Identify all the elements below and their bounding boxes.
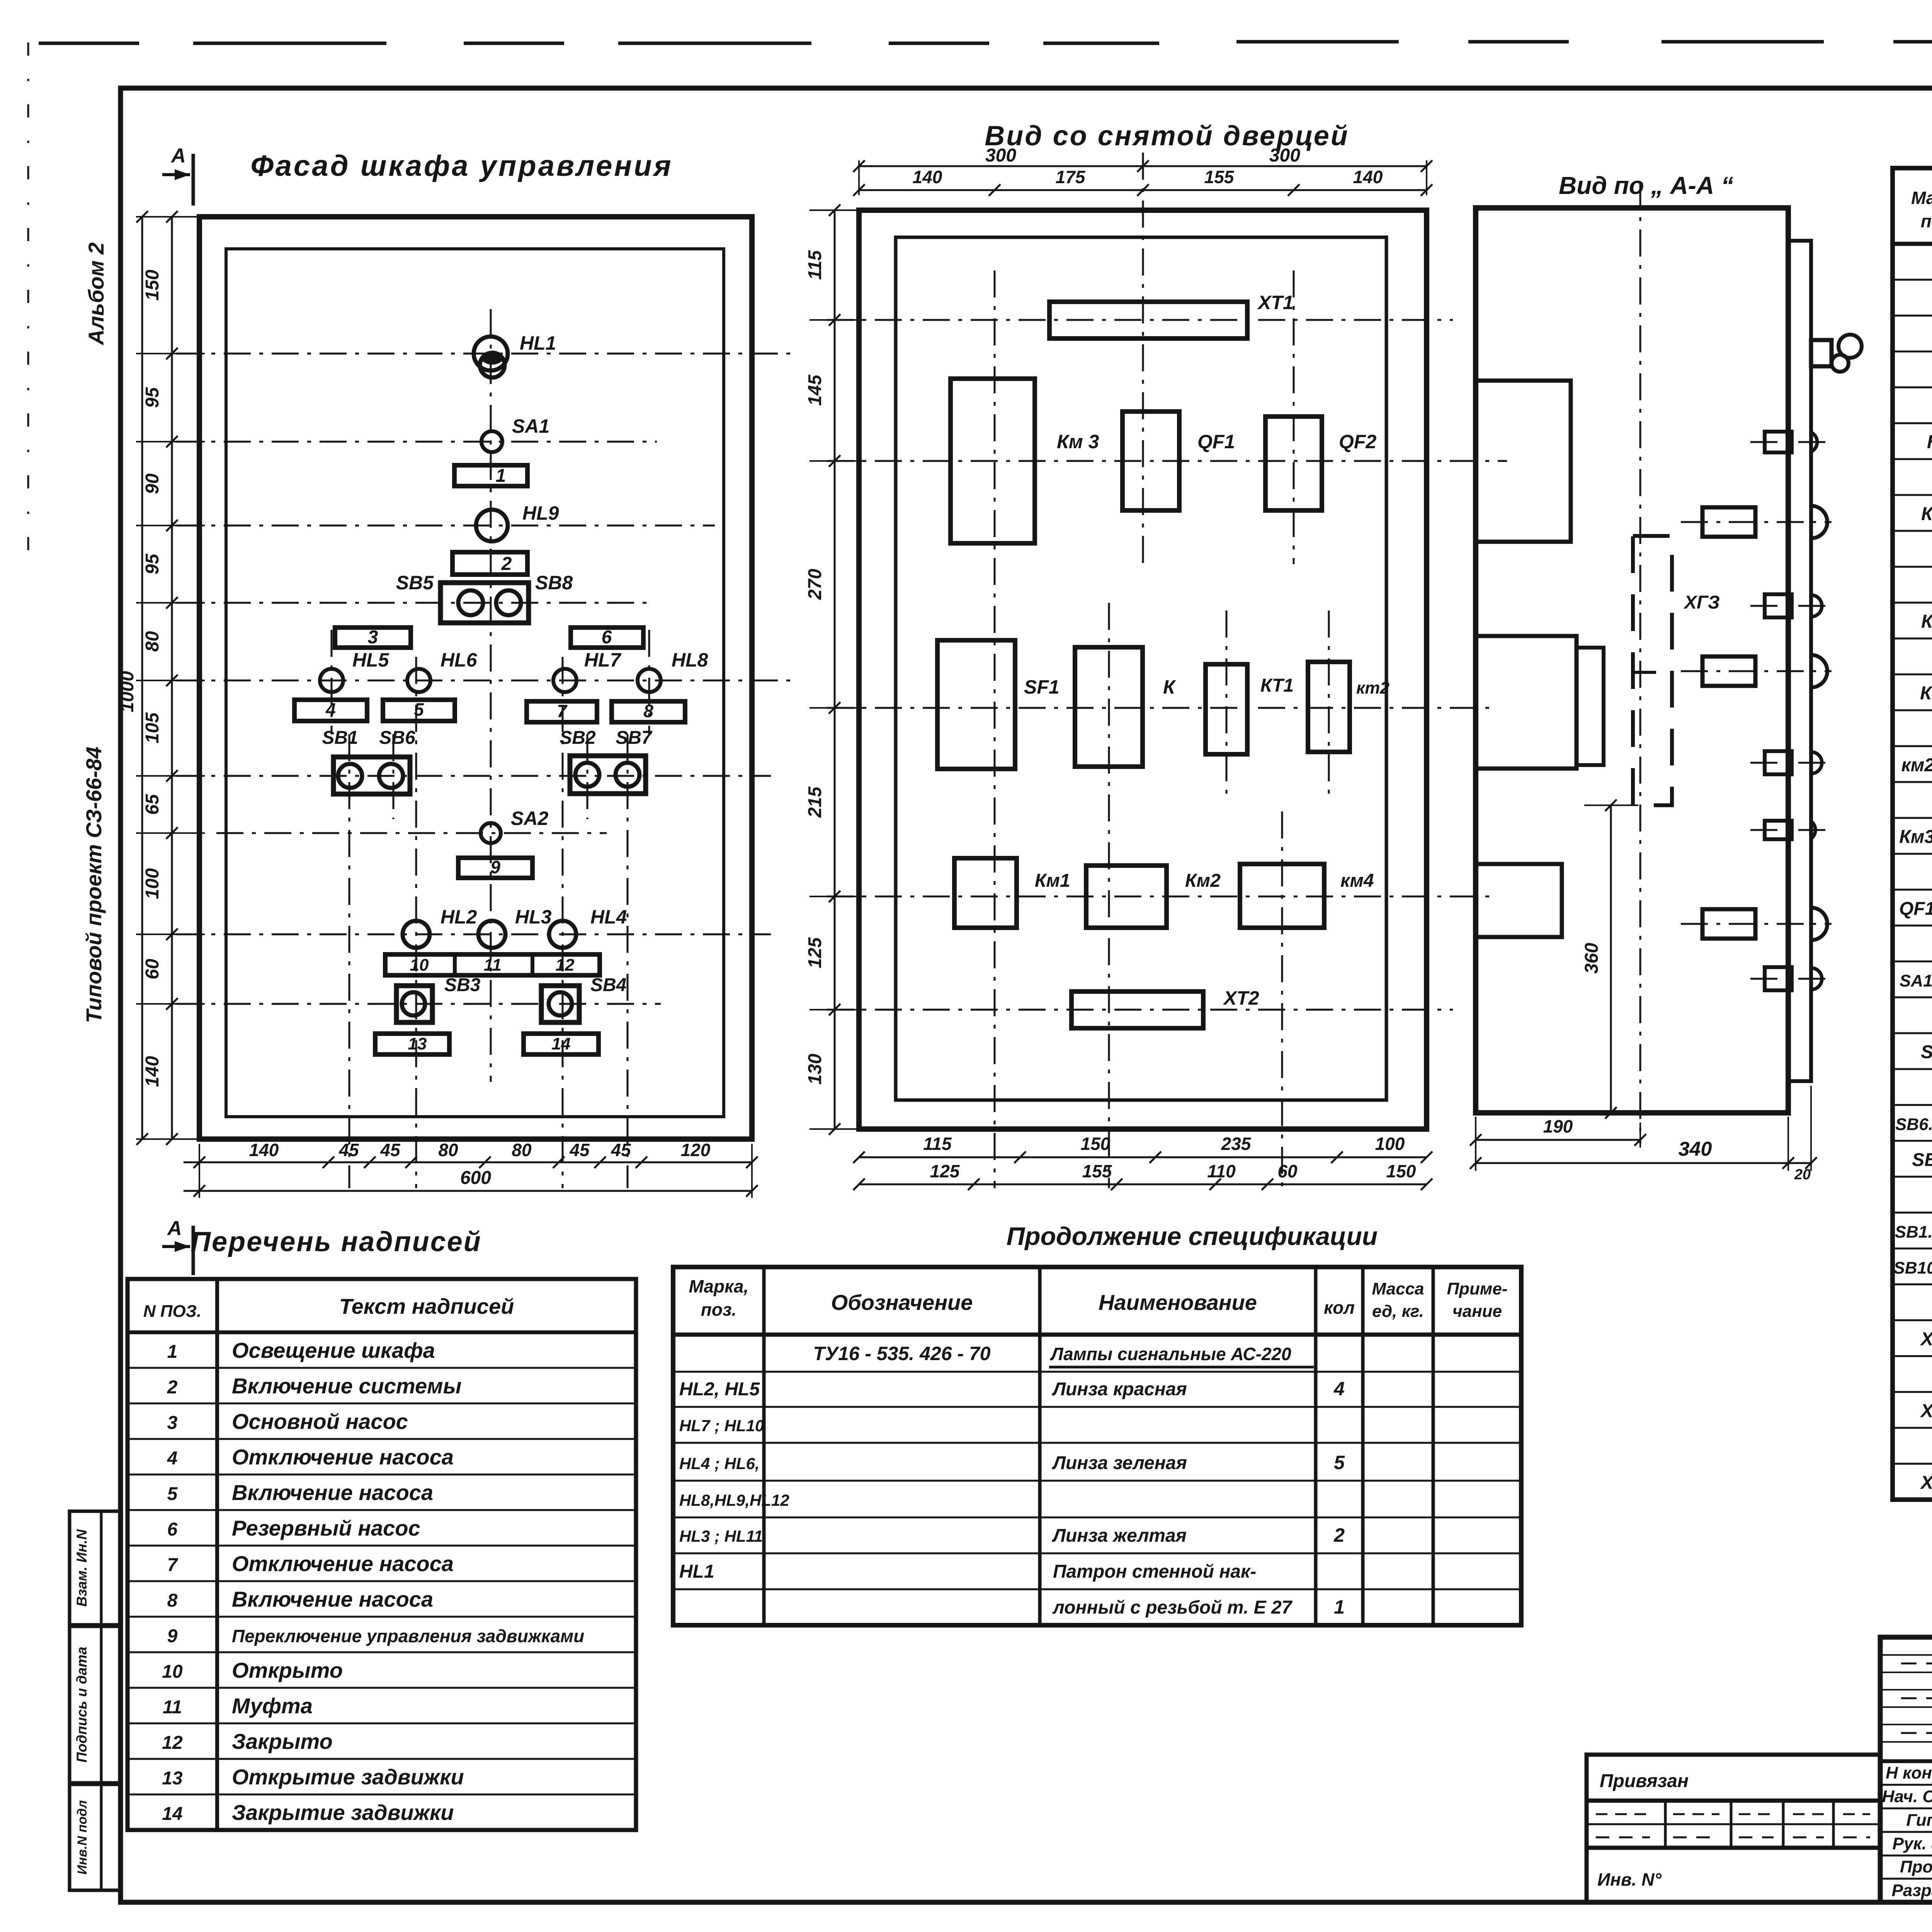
svg-text:Км1: Км1 (1035, 871, 1070, 891)
svg-text:К: К (1163, 676, 1176, 698)
svg-text:8: 8 (167, 1590, 178, 1611)
svg-text:Продолжение спецификации: Продолжение спецификации (1007, 1222, 1378, 1250)
svg-text:ХТ2: ХТ2 (1920, 1401, 1932, 1421)
svg-text:чание: чание (1452, 1302, 1502, 1321)
svg-text:14: 14 (162, 1804, 182, 1824)
svg-text:145: 145 (805, 374, 825, 406)
svg-text:95: 95 (142, 553, 163, 575)
svg-text:1000: 1000 (117, 671, 138, 712)
svg-text:QF2: QF2 (1339, 431, 1376, 452)
svg-text:8: 8 (643, 701, 653, 721)
svg-text:Освещение шкафа: Освещение шкафа (232, 1338, 435, 1362)
svg-text:Км3;Км5: Км3;Км5 (1899, 827, 1932, 847)
svg-text:SB 12: SB 12 (1912, 1150, 1932, 1170)
svg-text:2: 2 (167, 1377, 178, 1398)
svg-text:Переключение управления задвиж: Переключение управления задвижками (232, 1626, 584, 1646)
svg-text:ХГЗ: ХГЗ (1683, 592, 1720, 613)
svg-text:SF1: SF1 (1921, 1042, 1932, 1063)
svg-text:Марка,: Марка, (689, 1276, 749, 1296)
svg-text:SB5: SB5 (396, 572, 434, 594)
svg-text:SB8: SB8 (535, 572, 573, 594)
svg-text:N ПОЗ.: N ПОЗ. (143, 1302, 201, 1321)
svg-text:А: А (167, 1217, 182, 1240)
svg-text:140: 140 (1353, 167, 1383, 187)
svg-text:Гип: Гип (1906, 1811, 1932, 1830)
svg-text:HL3: HL3 (515, 906, 552, 928)
svg-text:Инв.N подл: Инв.N подл (75, 1800, 90, 1875)
svg-text:HL9: HL9 (522, 502, 559, 524)
svg-text:3: 3 (167, 1413, 178, 1433)
svg-text:360: 360 (1582, 943, 1602, 974)
svg-text:HL5: HL5 (352, 649, 389, 671)
svg-text:150: 150 (1081, 1134, 1111, 1154)
svg-text:Подпись и дата: Подпись и дата (74, 1647, 90, 1763)
svg-text:11: 11 (163, 1697, 182, 1718)
svg-text:Н контр: Н контр (1886, 1764, 1932, 1782)
svg-text:ед, кг.: ед, кг. (1372, 1302, 1424, 1321)
svg-text:Наименование: Наименование (1099, 1290, 1257, 1315)
svg-text:155: 155 (1204, 167, 1235, 187)
svg-text:Нач. Отд: Нач. Отд (1882, 1787, 1932, 1806)
svg-text:20: 20 (1794, 1167, 1811, 1183)
svg-text:7: 7 (167, 1555, 179, 1575)
svg-text:125: 125 (930, 1161, 960, 1181)
svg-text:Линза зеленая: Линза зеленая (1052, 1453, 1187, 1473)
svg-text:100: 100 (1375, 1134, 1405, 1154)
svg-text:125: 125 (805, 937, 825, 968)
svg-text:1: 1 (1334, 1596, 1345, 1618)
svg-text:Вид по „ А-А “: Вид по „ А-А “ (1559, 172, 1733, 199)
svg-text:14: 14 (552, 1034, 571, 1053)
svg-text:ХТ2: ХТ2 (1223, 987, 1259, 1009)
svg-text:Альбом 2: Альбом 2 (84, 242, 108, 346)
svg-text:Марка: Марка (1911, 188, 1932, 208)
svg-text:Фасад шкафа управления: Фасад шкафа управления (250, 150, 673, 182)
svg-text:45: 45 (380, 1140, 401, 1160)
svg-text:Лампы сигнальные АС-220: Лампы сигнальные АС-220 (1050, 1344, 1291, 1364)
svg-text:65: 65 (142, 794, 163, 815)
svg-text:7: 7 (557, 701, 568, 721)
svg-text:SA1; SA2: SA1; SA2 (1900, 971, 1932, 990)
svg-text:HL1: HL1 (520, 332, 556, 354)
svg-text:150: 150 (142, 270, 163, 301)
svg-text:115: 115 (805, 250, 825, 280)
svg-text:Закрыто: Закрыто (232, 1729, 333, 1753)
svg-text:45: 45 (569, 1140, 590, 1160)
svg-text:5: 5 (1334, 1452, 1345, 1473)
svg-text:105: 105 (142, 712, 163, 743)
svg-text:Разраб: Разраб (1892, 1881, 1932, 1900)
svg-text:60: 60 (1277, 1161, 1298, 1181)
svg-text:2: 2 (501, 554, 512, 574)
svg-text:150: 150 (1386, 1161, 1416, 1181)
svg-text:HL7 ; HL10: HL7 ; HL10 (679, 1417, 764, 1435)
svg-text:кол: кол (1324, 1298, 1355, 1318)
svg-text:Км2: Км2 (1185, 871, 1221, 891)
svg-text:13: 13 (162, 1768, 183, 1789)
svg-text:Закрытие задвижки: Закрытие задвижки (232, 1800, 454, 1825)
svg-text:Основной насос: Основной насос (232, 1409, 408, 1434)
svg-text:Линза красная: Линза красная (1052, 1379, 1187, 1400)
svg-text:Открыто: Открыто (232, 1658, 343, 1682)
svg-text:Отключение насоса: Отключение насоса (232, 1445, 454, 1469)
svg-text:SB6...SB9,: SB6...SB9, (1895, 1115, 1932, 1134)
svg-text:SA1: SA1 (512, 415, 549, 437)
svg-text:10: 10 (410, 956, 429, 975)
svg-text:Взам. Ин.N: Взам. Ин.N (74, 1529, 90, 1607)
svg-text:235: 235 (1221, 1134, 1252, 1154)
svg-text:SB1...SB5;: SB1...SB5; (1895, 1223, 1932, 1242)
svg-text:140: 140 (142, 1056, 163, 1087)
svg-text:лонный с резьбой т. Е 27: лонный с резьбой т. Е 27 (1052, 1597, 1293, 1618)
svg-text:Включение насоса: Включение насоса (232, 1480, 433, 1505)
svg-text:Рук. гр: Рук. гр (1893, 1834, 1932, 1853)
svg-text:поз.: поз. (701, 1299, 736, 1320)
svg-text:SB3: SB3 (444, 975, 481, 995)
svg-text:QF1: QF1 (1197, 431, 1235, 452)
svg-text:155: 155 (1082, 1161, 1112, 1181)
svg-text:4: 4 (325, 699, 336, 719)
svg-text:300: 300 (985, 145, 1016, 166)
svg-text:Обозначение: Обозначение (831, 1290, 973, 1315)
svg-text:6: 6 (602, 627, 612, 648)
svg-text:80: 80 (512, 1140, 532, 1160)
svg-text:ХТ1: ХТ1 (1257, 292, 1294, 313)
svg-text:КТ1: КТ1 (1921, 504, 1932, 524)
svg-text:км4: км4 (1340, 871, 1374, 891)
svg-text:Масса: Масса (1372, 1279, 1424, 1298)
svg-text:Типовой проект СЗ-66-84: Типовой проект СЗ-66-84 (82, 747, 106, 1023)
svg-text:Включение насоса: Включение насоса (232, 1587, 433, 1611)
svg-text:12: 12 (162, 1733, 183, 1753)
svg-text:Привязан: Привязан (1600, 1771, 1689, 1791)
svg-text:60: 60 (142, 959, 163, 980)
svg-text:300: 300 (1269, 145, 1300, 166)
svg-text:Перечень надписей: Перечень надписей (190, 1226, 481, 1257)
svg-text:HL7: HL7 (584, 649, 622, 671)
svg-text:130: 130 (805, 1054, 825, 1085)
svg-text:SB1: SB1 (322, 728, 358, 748)
svg-text:1: 1 (496, 466, 506, 486)
svg-text:Патрон стенной нак-: Патрон стенной нак- (1053, 1561, 1256, 1582)
svg-text:1: 1 (167, 1342, 178, 1362)
svg-text:215: 215 (805, 786, 825, 818)
svg-text:115: 115 (923, 1134, 952, 1154)
svg-text:HL8: HL8 (672, 649, 708, 671)
svg-text:SB10,SB11: SB10,SB11 (1893, 1259, 1932, 1277)
svg-text:поз.: поз. (1921, 211, 1932, 231)
svg-text:ТУ16 - 535. 426 - 70: ТУ16 - 535. 426 - 70 (813, 1343, 990, 1364)
svg-text:QF1,QF2: QF1,QF2 (1899, 898, 1932, 919)
svg-text:95: 95 (142, 387, 163, 408)
svg-text:Включение системы: Включение системы (232, 1374, 461, 1398)
svg-text:90: 90 (142, 473, 163, 494)
svg-text:9: 9 (490, 857, 500, 877)
svg-text:11: 11 (484, 956, 502, 975)
svg-text:190: 190 (1543, 1116, 1573, 1136)
svg-text:Муфта: Муфта (232, 1694, 313, 1718)
svg-text:км2;км4: км2;км4 (1901, 755, 1932, 776)
svg-text:Текст надписей: Текст надписей (339, 1294, 514, 1318)
svg-text:HL3 ; HL11: HL3 ; HL11 (679, 1527, 763, 1545)
svg-text:HL2, HL5: HL2, HL5 (679, 1379, 760, 1400)
svg-text:80: 80 (142, 631, 163, 652)
svg-text:SF1: SF1 (1024, 676, 1060, 698)
svg-text:10: 10 (162, 1662, 183, 1682)
svg-text:12: 12 (556, 956, 575, 975)
svg-text:45: 45 (611, 1140, 631, 1160)
svg-text:Инв. N°: Инв. N° (1597, 1869, 1662, 1889)
svg-text:110: 110 (1207, 1161, 1236, 1181)
svg-text:140: 140 (913, 167, 942, 187)
svg-text:SA2: SA2 (511, 808, 548, 829)
svg-text:КТ2: КТ2 (1921, 611, 1932, 632)
svg-text:кт2: кт2 (1356, 679, 1389, 697)
svg-text:4: 4 (167, 1448, 178, 1469)
svg-text:SB7: SB7 (616, 728, 653, 748)
svg-text:Открытие задвижки: Открытие задвижки (232, 1765, 464, 1789)
svg-text:3: 3 (368, 627, 378, 648)
svg-text:Км1: Км1 (1920, 683, 1932, 704)
svg-text:Отключение насоса: Отключение насоса (232, 1551, 454, 1576)
svg-text:80: 80 (438, 1140, 458, 1160)
svg-text:45: 45 (338, 1140, 359, 1160)
svg-text:HL1: HL1 (679, 1561, 714, 1582)
svg-text:SB6: SB6 (379, 728, 415, 748)
svg-text:HL8,HL9,HL12: HL8,HL9,HL12 (679, 1491, 789, 1509)
svg-text:HL2: HL2 (440, 906, 477, 928)
svg-text:КТ1: КТ1 (1260, 675, 1294, 696)
svg-text:Приме-: Приме- (1447, 1279, 1507, 1298)
svg-text:270: 270 (805, 569, 825, 600)
svg-text:140: 140 (249, 1140, 279, 1160)
svg-text:HL4: HL4 (590, 906, 627, 928)
svg-text:Линза желтая: Линза желтая (1052, 1526, 1187, 1546)
svg-text:SB4: SB4 (590, 975, 626, 995)
svg-text:5: 5 (414, 699, 424, 719)
svg-text:Пров: Пров (1900, 1857, 1932, 1876)
svg-text:6: 6 (167, 1519, 178, 1540)
svg-text:К1: К1 (1927, 432, 1932, 452)
svg-text:9: 9 (167, 1626, 178, 1646)
svg-text:HL6: HL6 (440, 649, 478, 671)
svg-text:600: 600 (460, 1168, 491, 1188)
svg-text:13: 13 (408, 1034, 427, 1053)
svg-text:SB2: SB2 (560, 728, 596, 748)
svg-text:120: 120 (681, 1140, 711, 1160)
svg-text:А: А (170, 145, 186, 167)
svg-text:175: 175 (1056, 167, 1086, 187)
svg-text:HL4 ; HL6,: HL4 ; HL6, (679, 1454, 760, 1473)
svg-text:ХТ3: ХТ3 (1920, 1473, 1932, 1493)
svg-text:ХТ1: ХТ1 (1920, 1329, 1932, 1350)
svg-text:340: 340 (1679, 1138, 1712, 1160)
svg-text:4: 4 (1333, 1378, 1345, 1400)
svg-text:Км 3: Км 3 (1057, 431, 1099, 452)
svg-text:5: 5 (167, 1484, 178, 1504)
svg-text:Резервный насос: Резервный насос (232, 1516, 420, 1540)
svg-text:2: 2 (1333, 1524, 1345, 1546)
svg-text:100: 100 (142, 868, 163, 899)
